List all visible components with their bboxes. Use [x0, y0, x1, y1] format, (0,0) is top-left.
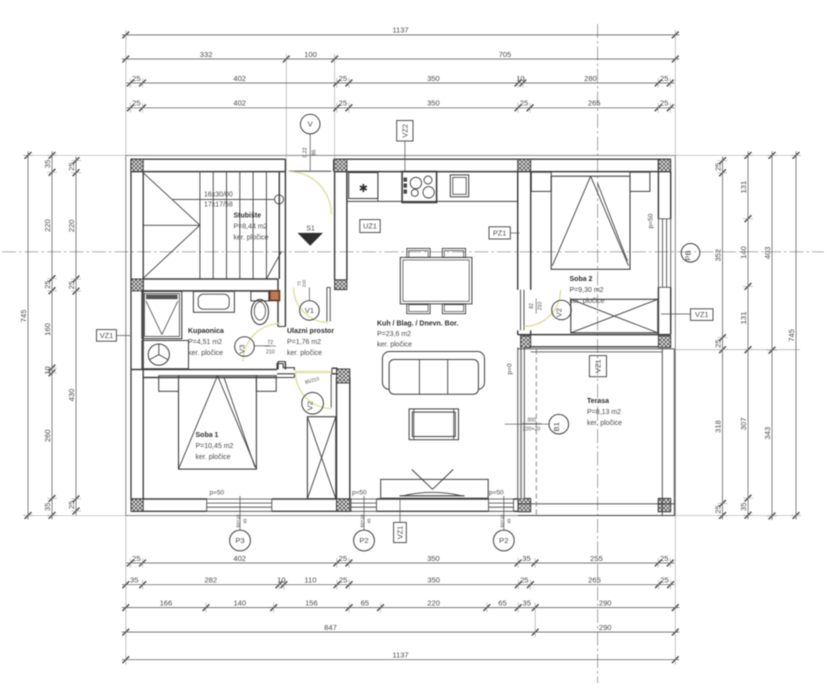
- svg-text:P=4,51 m2: P=4,51 m2: [188, 339, 222, 346]
- svg-text:V2: V2: [306, 401, 315, 410]
- svg-text:332: 332: [200, 50, 213, 59]
- svg-text:VZ1: VZ1: [695, 310, 709, 319]
- terrace door size 300 220+20: [522, 418, 542, 433]
- dimension row top 1137: [122, 26, 680, 40]
- entry door S1 leaf: [289, 170, 331, 172]
- column soba1-right top: [337, 369, 350, 383]
- column W1 top: [335, 159, 347, 171]
- svg-text:Stubište: Stubište: [234, 213, 262, 220]
- staircase treads: [200, 172, 267, 279]
- door V2 soba1 swing arc: [295, 372, 332, 409]
- column soba2-left top: [518, 159, 531, 171]
- svg-text:282: 282: [204, 576, 217, 585]
- column terrace TR: [658, 336, 670, 348]
- svg-text:745: 745: [787, 329, 796, 342]
- label box VZ2 top: [397, 121, 413, 142]
- kitchen counter: [347, 172, 518, 202]
- vanity sink: [193, 291, 234, 312]
- dimension row top 332/100/705: [122, 50, 680, 64]
- svg-text:307: 307: [739, 418, 748, 431]
- svg-text:280: 280: [584, 74, 597, 83]
- svg-text:402: 402: [233, 74, 246, 83]
- svg-text:160: 160: [43, 323, 52, 336]
- dimension column right 745: [787, 151, 801, 519]
- svg-text:403: 403: [763, 246, 772, 259]
- svg-text:25: 25: [520, 576, 528, 585]
- svg-text:P2: P2: [359, 536, 368, 545]
- svg-text:100: 100: [304, 50, 317, 59]
- svg-text:430: 430: [67, 389, 76, 402]
- svg-text:290: 290: [599, 623, 612, 632]
- svg-text:UZ1: UZ1: [363, 222, 377, 231]
- svg-text:847: 847: [324, 623, 337, 632]
- svg-text:65: 65: [498, 598, 506, 607]
- svg-text:P=8,13 m2: P=8,13 m2: [587, 409, 621, 416]
- dimension column right detail b: [739, 151, 753, 519]
- svg-text:25: 25: [339, 74, 347, 83]
- chair top 1: [407, 248, 430, 257]
- marker P3 leader: [239, 496, 241, 530]
- svg-text:0,22: 0,22: [303, 147, 309, 157]
- column top-left: [131, 159, 143, 171]
- svg-text:1137: 1137: [392, 26, 408, 35]
- chair bottom 1: [407, 304, 430, 314]
- dimension column right 403/343: [763, 151, 777, 520]
- svg-text:350: 350: [427, 576, 440, 585]
- svg-text:25: 25: [520, 99, 528, 108]
- column terrace BR: [658, 498, 671, 511]
- V1 size label: [297, 279, 307, 287]
- svg-text:35: 35: [43, 503, 52, 511]
- room label Soba 1: [196, 432, 234, 461]
- coffee table: [409, 409, 458, 440]
- svg-text:220: 220: [427, 598, 440, 607]
- svg-text:300: 300: [527, 418, 536, 424]
- svg-text:25: 25: [339, 554, 347, 563]
- svg-text:166: 166: [160, 598, 173, 607]
- exterior wall right: [658, 159, 670, 334]
- window living south-west: [351, 499, 377, 511]
- svg-text:25: 25: [339, 99, 347, 108]
- marker V1 leader: [308, 288, 310, 301]
- tv cabinet: [381, 479, 489, 498]
- marker P2b leader: [503, 496, 505, 530]
- chair bottom 2: [442, 304, 465, 314]
- svg-text:45: 45: [367, 518, 372, 524]
- svg-text:17x17/58: 17x17/58: [204, 202, 233, 209]
- svg-text:45: 45: [507, 518, 512, 524]
- svg-text:ker. pločice: ker. pločice: [587, 420, 622, 427]
- svg-text:265: 265: [588, 576, 601, 585]
- svg-text:VZ1: VZ1: [396, 526, 405, 540]
- marker V3 leader: [255, 345, 270, 347]
- svg-text:705: 705: [499, 50, 512, 59]
- door V2 soba2 swing arc: [524, 290, 561, 327]
- window Soba2 east: [648, 213, 671, 287]
- column terrace BL: [518, 498, 531, 511]
- nightstand soba2 right: [630, 172, 650, 191]
- svg-text:131: 131: [739, 181, 748, 194]
- svg-text:25: 25: [660, 99, 668, 108]
- wall soba1 right: [337, 378, 350, 500]
- svg-text:25: 25: [660, 576, 668, 585]
- dimension row top detail a: [126, 74, 674, 88]
- svg-text:25: 25: [713, 339, 722, 347]
- svg-text:Terasa: Terasa: [587, 398, 609, 405]
- svg-text:25: 25: [132, 99, 140, 108]
- room label Stubiste: [234, 213, 269, 242]
- dimension column right detail a: [713, 157, 727, 520]
- dimension column left detail b: [67, 157, 81, 515]
- horizontal centerline axis: [2, 251, 824, 253]
- stair text 16x30: [204, 191, 233, 208]
- svg-text:p=50: p=50: [648, 213, 655, 228]
- svg-text:72: 72: [267, 340, 273, 346]
- column soba1-right bottom: [337, 499, 350, 511]
- extension lines bottom: [126, 516, 676, 663]
- chair top 2: [442, 248, 465, 257]
- svg-text:Kupaonica: Kupaonica: [188, 328, 224, 335]
- PZ1 leader: [510, 232, 519, 234]
- kitchen stove: [402, 172, 437, 203]
- label box VZ1 right: [691, 309, 714, 321]
- svg-text:220: 220: [43, 219, 52, 232]
- svg-text:10: 10: [277, 576, 285, 585]
- svg-text:B1: B1: [552, 422, 561, 431]
- svg-text:35: 35: [130, 576, 138, 585]
- nightstand soba1 right: [256, 376, 276, 392]
- tv antenna V: [412, 470, 453, 490]
- svg-text:35: 35: [43, 160, 52, 168]
- entry marker S1: [298, 226, 324, 246]
- svg-text:ker. pločice: ker. pločice: [287, 350, 322, 357]
- marker V leader: [309, 134, 311, 171]
- svg-text:p=0: p=0: [507, 363, 514, 374]
- svg-text:P3: P3: [235, 536, 244, 545]
- svg-text:350: 350: [427, 74, 440, 83]
- svg-text:10: 10: [516, 74, 524, 83]
- V2 soba2 size fraction 82/210: [529, 299, 544, 314]
- svg-text:265: 265: [588, 99, 601, 108]
- svg-text:350: 350: [427, 554, 440, 563]
- dimension column left detail a: [43, 151, 57, 519]
- room label Terasa: [587, 398, 622, 427]
- marker V3: [235, 337, 255, 357]
- shaft (orange): [270, 291, 280, 301]
- marker P3: [230, 530, 251, 551]
- wall soba2 left: [518, 172, 531, 335]
- svg-text:210: 210: [266, 350, 275, 356]
- label box VZ1 bottom: [394, 522, 407, 542]
- svg-text:343: 343: [763, 427, 772, 440]
- p=50 label living window e: [489, 490, 504, 497]
- svg-text:25: 25: [43, 280, 52, 288]
- marker PB: [681, 244, 700, 263]
- svg-text:V1: V1: [305, 306, 314, 315]
- room label Ulazni prostor: [287, 328, 334, 357]
- svg-text:255: 255: [590, 554, 603, 563]
- svg-text:110: 110: [304, 576, 316, 585]
- svg-text:16x30/00: 16x30/00: [204, 191, 233, 198]
- svg-text:p=50: p=50: [352, 490, 367, 497]
- svg-text:82: 82: [529, 303, 535, 309]
- tiny sill dims under windows: [236, 514, 512, 527]
- svg-text:25: 25: [67, 162, 76, 170]
- room label Kuh Blag Dnevn: [377, 321, 458, 349]
- dimension row bottom detail a: [126, 554, 674, 568]
- terrace roof overhang dashed: [535, 350, 537, 516]
- svg-text:220: 220: [67, 219, 76, 232]
- svg-text:45: 45: [243, 518, 248, 524]
- svg-text:25: 25: [713, 505, 722, 513]
- svg-text:402: 402: [233, 99, 246, 108]
- door V2 soba1 open leaf: [330, 374, 332, 408]
- svg-text:PB: PB: [684, 250, 693, 260]
- svg-text:VZ1: VZ1: [594, 359, 603, 373]
- window Soba1 south: [207, 499, 272, 511]
- wall soba1 top (bath south) with jog: [131, 364, 338, 378]
- svg-text:PZ1: PZ1: [493, 229, 507, 238]
- terrace slab edge right: [662, 349, 674, 516]
- wardrobe soba1: [307, 417, 335, 499]
- svg-text:210: 210: [302, 279, 307, 287]
- column stair-left: [131, 279, 143, 291]
- marker P2a leader: [363, 496, 365, 530]
- svg-text:ker. pločice: ker. pločice: [196, 454, 231, 461]
- svg-text:S1: S1: [306, 226, 315, 233]
- svg-text:VZ2: VZ2: [400, 124, 409, 138]
- exterior wall bottom with window openings: [131, 499, 518, 511]
- svg-text:p=50: p=50: [210, 490, 225, 497]
- svg-text:ker. pločice: ker. pločice: [377, 342, 412, 349]
- VZ1 bottom leader: [399, 500, 401, 522]
- column terrace TL: [521, 336, 531, 348]
- svg-text:35: 35: [522, 598, 530, 607]
- window living south-east: [489, 499, 514, 511]
- svg-text:P=23,6 m2: P=23,6 m2: [377, 331, 411, 338]
- dresser soba2: [571, 299, 658, 333]
- svg-text:ker. pločice: ker. pločice: [234, 235, 269, 242]
- svg-text:745: 745: [19, 310, 28, 323]
- svg-text:P=10,45 m2: P=10,45 m2: [196, 443, 234, 450]
- kitchen sink: [450, 175, 468, 197]
- V3 size fraction 72/210: [265, 340, 277, 356]
- svg-text:P2: P2: [499, 536, 508, 545]
- svg-text:60+10: 60+10: [236, 514, 241, 527]
- sofa: [382, 352, 484, 395]
- svg-text:25: 25: [132, 554, 140, 563]
- svg-text:35: 35: [739, 502, 748, 510]
- svg-text:P=9,30 m2: P=9,30 m2: [570, 287, 604, 294]
- marker P2 a: [354, 530, 375, 551]
- door V2 soba1 leaf (closed, yellow): [295, 371, 331, 374]
- svg-text:156: 156: [305, 598, 318, 607]
- svg-text:1137: 1137: [392, 651, 408, 660]
- svg-text:318: 318: [713, 420, 722, 433]
- marker P2 b: [493, 530, 514, 551]
- marker V2 soba2: [552, 300, 572, 320]
- label box PZ1: [489, 227, 510, 239]
- V leader labels 0,22 86: [303, 147, 318, 157]
- svg-text:Soba 1: Soba 1: [196, 432, 219, 439]
- glass wall living/terrace p=0: [507, 347, 525, 498]
- svg-text:p=50: p=50: [489, 490, 504, 497]
- label box VZ1 left: [97, 330, 117, 342]
- svg-text:131: 131: [739, 312, 748, 325]
- column bottom-left: [131, 499, 143, 511]
- exterior wall top (with entry opening): [131, 159, 671, 171]
- svg-text:352: 352: [713, 249, 722, 262]
- column top-right: [658, 159, 670, 171]
- door V1 leaf: [327, 287, 330, 321]
- terrace slab edge bottom: [518, 504, 675, 516]
- label box VZ1 terrace: [589, 356, 606, 377]
- dimension row bottom detail c: [122, 598, 680, 612]
- dimension row top detail b: [126, 99, 674, 113]
- staircase flight diagonals: [143, 173, 200, 278]
- tv set: [400, 492, 465, 496]
- stair direction line with start circle: [173, 195, 284, 204]
- VZ2 top leader: [404, 141, 406, 173]
- svg-text:290: 290: [599, 598, 612, 607]
- svg-text:25: 25: [660, 554, 668, 563]
- bed soba2: [551, 176, 630, 269]
- svg-text:V2: V2: [555, 308, 564, 317]
- extension lines left: [24, 155, 126, 515]
- dining table: [400, 257, 472, 304]
- p=50 label living window w: [352, 490, 367, 497]
- svg-text:25: 25: [713, 163, 722, 171]
- marker V2 soba1: [302, 392, 324, 414]
- washing machine: [142, 341, 189, 369]
- svg-text:86: 86: [312, 150, 318, 156]
- door V1 swing arc: [294, 287, 329, 322]
- extension lines top: [126, 31, 676, 172]
- dimension row bottom detail b: [122, 576, 675, 590]
- staircase landing line: [143, 224, 200, 226]
- terrace slab edge top: [518, 349, 675, 352]
- toilet: [251, 291, 269, 324]
- exterior wall left: [131, 159, 143, 499]
- VZ1 right leader: [661, 313, 691, 315]
- bed soba1: [179, 376, 257, 469]
- svg-text:25: 25: [660, 74, 668, 83]
- door V3 swing arc: [243, 324, 281, 362]
- marker V1: [300, 301, 320, 321]
- svg-text:60+10: 60+10: [500, 514, 505, 527]
- dimension row bottom 1137: [122, 651, 680, 665]
- marker B1: [549, 414, 569, 434]
- nightstand soba1 left: [159, 376, 179, 392]
- svg-text:260: 260: [43, 429, 52, 442]
- dimension column left 745: [19, 151, 33, 519]
- room label Kupaonica: [188, 328, 224, 357]
- entry door S1 swing arc: [289, 172, 331, 214]
- dimension row bottom 847/290: [122, 623, 680, 637]
- svg-text:Kuh / Blag. / Dnevn. Bor.: Kuh / Blag. / Dnevn. Bor.: [377, 321, 458, 328]
- stair break line: [266, 252, 281, 280]
- wall hall/kitchen W1: [335, 172, 347, 280]
- svg-text:25: 25: [132, 74, 140, 83]
- column W1 bottom: [335, 280, 347, 290]
- p=50 label soba1 window: [210, 490, 225, 497]
- svg-text:P=1,76 m2: P=1,76 m2: [287, 339, 321, 346]
- marker B1 leader: [505, 423, 549, 425]
- nightstand soba2 left: [531, 172, 551, 191]
- svg-text:25: 25: [339, 576, 347, 585]
- svg-text:✱: ✱: [359, 183, 368, 195]
- svg-text:220+20: 220+20: [523, 427, 541, 433]
- svg-text:V3: V3: [238, 344, 247, 353]
- room label Soba 2: [570, 276, 605, 305]
- VZ1 left leader: [116, 335, 130, 337]
- shower: [142, 291, 182, 338]
- building eave outline: [126, 155, 676, 515]
- svg-text:350: 350: [427, 99, 440, 108]
- extension lines right: [671, 155, 800, 515]
- svg-text:VZ1: VZ1: [100, 331, 114, 340]
- svg-text:10: 10: [43, 366, 52, 374]
- wall stair/hall and bath/hall: [278, 172, 285, 370]
- svg-text:60+10: 60+10: [360, 514, 365, 527]
- kitchen burner box: [349, 173, 378, 199]
- label box UZ1: [360, 220, 380, 233]
- svg-text:25: 25: [67, 501, 76, 509]
- svg-text:Ulazni prostor: Ulazni prostor: [287, 328, 334, 335]
- svg-text:140: 140: [739, 246, 748, 259]
- svg-text:25: 25: [67, 281, 76, 289]
- door V2 soba2 leaf: [521, 290, 525, 331]
- wall soba2/terrace: [518, 335, 671, 347]
- svg-text:65: 65: [361, 598, 369, 607]
- svg-text:Soba 2: Soba 2: [570, 276, 593, 283]
- svg-text:402: 402: [233, 554, 246, 563]
- svg-text:140: 140: [233, 598, 246, 607]
- svg-text:ker. pločice: ker. pločice: [188, 350, 223, 357]
- svg-text:210: 210: [538, 302, 544, 311]
- vertical centerline axis: [597, 24, 599, 683]
- svg-text:P=8,44 m2: P=8,44 m2: [234, 224, 268, 231]
- wall bath top: [143, 279, 278, 291]
- marker V: [300, 114, 320, 134]
- svg-text:35: 35: [522, 554, 530, 563]
